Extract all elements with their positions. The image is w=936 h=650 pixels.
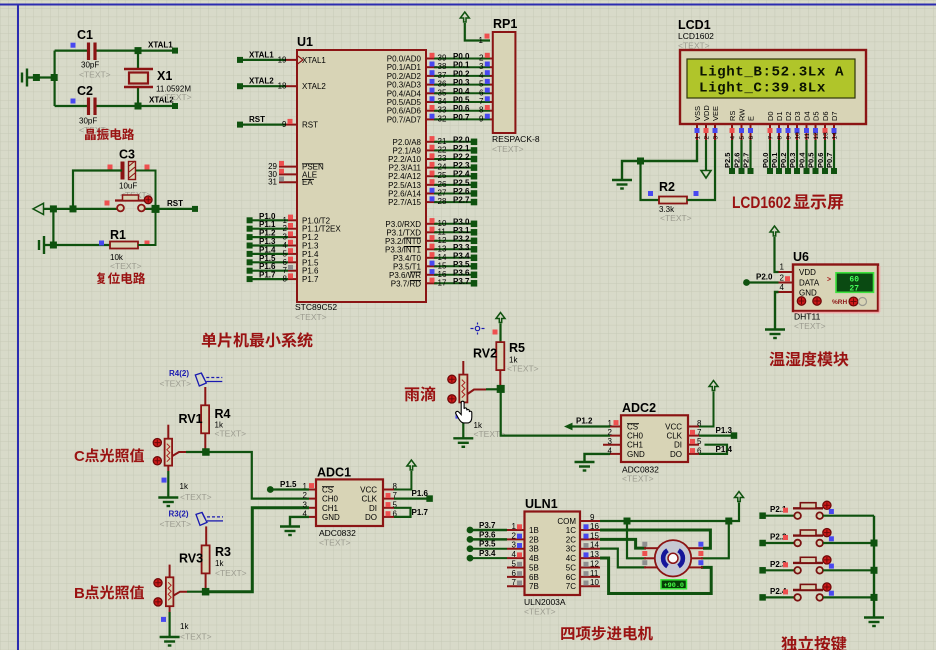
wire COM to motor left-middle [627,521,646,558]
pin 7 (CLK) of ADC2 [688,435,699,437]
svg-text:GND: GND [627,450,645,459]
svg-text:P1.7: P1.7 [259,271,276,280]
svg-text:10: 10 [795,132,802,140]
svg-text:9: 9 [479,114,484,123]
svg-text:36: 36 [438,80,447,89]
pin P3.5 of U1 [426,265,437,267]
svg-text:1: 1 [780,263,785,272]
svg-text:P0.3: P0.3 [788,153,797,168]
svg-text:XTAL2: XTAL2 [302,82,326,91]
RV1 wiper wire [172,452,186,456]
svg-text:R5: R5 [509,341,525,355]
svg-text:3: 3 [713,136,720,140]
pin 2 (CH0) of ADC2 [610,435,621,437]
wire crystal bottom [137,87,139,106]
svg-text:P0.2: P0.2 [453,69,470,78]
net P1.3 (ADC2 CLK) [699,435,734,437]
wire R2 to VEE [687,140,715,200]
wire RV2 to ground [462,402,464,409]
pin P1.0 of U1 [288,219,297,221]
svg-text:39: 39 [438,54,447,63]
svg-text:XTAL1: XTAL1 [148,41,173,50]
wire/net P0.0 (LCD data) [769,140,771,171]
svg-text:13: 13 [590,550,599,559]
pin 8 (VCC) of ADC1 [383,489,394,491]
pin P2.2 of U1 [426,158,437,160]
svg-text:VCC: VCC [665,423,682,432]
capacitor C2 [89,98,96,116]
push button K4 [759,594,766,601]
reset push button [117,205,124,212]
pin 7 (CLK) of ADC1 [383,498,394,500]
pin P3.4 of U1 [426,257,437,259]
svg-text:Light_C:39.8Lx: Light_C:39.8Lx [699,81,826,97]
wire button K4 to common [823,596,874,598]
svg-text:<TEXT>: <TEXT> [215,568,247,578]
svg-text:DO: DO [670,450,682,459]
ground (crystal rail) [22,69,27,87]
svg-text:RST: RST [249,115,265,124]
wire RV1 to ground [167,466,169,471]
pin 15 (2C) of ULN1 [580,538,600,540]
pin P0.2 of U1 / wire to RP1 [426,75,437,77]
svg-text:P0.5: P0.5 [453,96,470,105]
pin 4 of RP1 [490,75,493,77]
svg-text:8: 8 [777,136,784,140]
potentiometer RV1 [167,425,169,439]
pin P2.7 of U1 [426,201,437,203]
svg-text:8: 8 [283,275,288,284]
pin P3.1 of U1 [426,231,437,233]
pin P3.0 of U1 [426,223,437,225]
svg-text:GND: GND [322,513,340,522]
svg-text:DO: DO [365,513,377,522]
LCD screen [687,59,855,98]
svg-text:P3.7: P3.7 [479,521,496,530]
label temperature-humidity module (Chinese) [769,352,784,367]
wire/net P0.4 (LCD data) [805,140,807,171]
svg-text:1C: 1C [566,526,576,535]
pin P2.4 of U1 [426,175,437,177]
svg-text:4B: 4B [529,554,539,563]
svg-text:4C: 4C [566,554,576,563]
svg-text:ADC2: ADC2 [622,401,656,415]
power arrow (motor COM) [735,492,744,502]
DHT11 readout display [836,273,874,293]
svg-text:ULN2003A: ULN2003A [524,597,566,607]
darlington array ULN1 (ULN2003A) [525,512,581,596]
pin 2 (CH0) of ADC1 [309,498,316,500]
node P2.0 / wire to DATA [743,279,750,286]
svg-text:D5: D5 [812,111,821,121]
pin P1.6 of U1 [288,270,297,272]
pin 8 of RP1 [490,110,493,112]
svg-text:ADC0832: ADC0832 [319,528,356,538]
wire buttons common rail [873,516,875,617]
ground (U6) [765,330,785,339]
svg-text:7: 7 [768,136,775,140]
ADC U2 body (ADC2 ADC0832) [621,415,688,462]
pin 2 of U6 (DATA) [779,282,794,284]
svg-text:RST: RST [167,199,183,208]
svg-text:11: 11 [804,132,811,139]
pin P1.2 of U1 [288,236,297,238]
wire COM to motor right-middle [701,521,729,558]
wire C2 to XTAL2 [55,105,87,107]
svg-text:15: 15 [590,531,599,540]
svg-text:38: 38 [438,62,447,71]
pin 4 (GND) of ADC1 [309,516,316,518]
svg-text:2C: 2C [566,535,576,544]
svg-text:2B: 2B [529,535,539,544]
svg-text:5: 5 [479,80,484,89]
svg-text:RST: RST [302,121,318,130]
resistor R3 1k (LDR) [205,526,207,545]
pin 7 of RP1 [490,101,493,103]
svg-text:P1.2: P1.2 [576,417,593,426]
net P1.7 (ADC1 DI/DO tie) [394,508,411,517]
svg-text:D7: D7 [830,111,839,121]
svg-text:E: E [747,116,756,121]
svg-text:P0.7/AD7: P0.7/AD7 [387,115,422,124]
svg-text:5C: 5C [566,563,576,572]
ground (buttons) [864,618,884,627]
wire 1C to motor right-top [600,530,710,548]
wire power to ADC1 VCC [394,471,411,490]
svg-text:P0.1: P0.1 [453,61,470,70]
wire C3 left branch [73,171,122,209]
svg-text:P0.7: P0.7 [825,153,834,168]
svg-text:P2.5: P2.5 [723,153,732,168]
node P3.5 / wire to ULN1 3B [467,545,474,552]
svg-text:11: 11 [590,569,599,578]
U6 adjust knobs and %RH label [797,297,805,305]
svg-text:<TEXT>: <TEXT> [319,538,351,548]
svg-text:P0.6/AD6: P0.6/AD6 [387,107,422,116]
svg-text:P1.6: P1.6 [412,489,429,498]
pin EA of U1 [279,181,297,183]
power arrow (RP1) [460,12,469,22]
svg-text:14: 14 [590,541,599,550]
node P3.6 / wire to ULN1 2B [467,536,474,543]
svg-text:DI: DI [369,504,377,513]
svg-text:ULN1: ULN1 [525,497,558,511]
svg-text:VSS: VSS [693,106,702,121]
pin P3.2 of U1 [426,240,437,242]
svg-text:9: 9 [282,120,287,129]
ground (ADC1) [280,527,300,536]
input terminal (left arrow) [33,203,44,214]
svg-text:D3: D3 [793,111,802,121]
svg-text:D6: D6 [821,111,830,121]
svg-text:P3.4: P3.4 [479,549,496,558]
wire button K3 to common [823,569,874,571]
svg-text:RS: RS [728,111,737,121]
svg-text:31: 31 [268,178,277,187]
mouse cursor [456,401,472,423]
svg-text:3: 3 [479,62,484,71]
pin 5 (5B) of ULN1 [507,566,525,568]
svg-text:9: 9 [786,136,793,140]
svg-text:P0.0/AD0: P0.0/AD0 [387,55,422,64]
wire/net P2.7 (LCD pin 6) [749,140,751,171]
svg-text:8: 8 [479,106,484,115]
svg-text:<TEXT>: <TEXT> [160,92,192,102]
svg-text:<TEXT>: <TEXT> [79,70,111,80]
wire VDD to power-down arrow [705,140,707,171]
pin 2 of RP1 [490,58,493,60]
svg-text:12: 12 [590,559,599,568]
svg-text:XTAL2: XTAL2 [249,77,274,86]
LDR torch icon (R3) [196,512,223,525]
svg-text:2: 2 [303,491,308,500]
svg-text:>: > [827,277,831,284]
svg-text:<TEXT>: <TEXT> [622,474,654,484]
capacitor C1 [89,43,96,61]
ground (RV2) [453,438,473,447]
wire/net P0.3 (LCD data) [796,140,798,171]
svg-text:D1: D1 [775,111,784,121]
ground (RV3) [160,637,180,646]
svg-text:13: 13 [823,132,830,140]
svg-text:P0.0: P0.0 [761,153,770,168]
wire RV3 node to ADC1 CH1 [206,508,309,592]
svg-text:P0.3: P0.3 [453,78,470,87]
svg-text:2: 2 [780,274,785,283]
LDR torch icon (R4) [195,373,222,386]
ground (ADC2) [575,462,595,471]
temperature sensor U6 DHT11 [793,265,878,312]
svg-text:CLK: CLK [361,495,377,504]
svg-text:P1.7: P1.7 [412,508,429,517]
wire ADC2 GND to ground [585,454,611,462]
wire RV1 node to ADC1 CH0 [206,452,309,499]
pin 6 (6B) of ULN1 [507,576,525,578]
sheet border [0,4,936,6]
svg-text:P0.2/AD2: P0.2/AD2 [387,72,422,81]
svg-text:P0.1: P0.1 [770,153,779,168]
label raindrop (Chinese) [405,387,420,401]
label reset-circuit (Chinese) [97,272,106,284]
resistor R1 10k [110,242,138,249]
svg-text:P0.4: P0.4 [798,152,807,168]
svg-text:32: 32 [438,114,447,123]
svg-text:LCD1602: LCD1602 [678,31,714,41]
node P1.5 / wire to ADC1 CS [267,486,274,493]
label MCU minimal system (Chinese) [202,332,217,347]
net P1.6 (ADC1 CLK) [394,498,430,500]
power arrow (R5) [496,313,505,323]
svg-text:GND: GND [799,289,817,298]
pin P0.3 of U1 / wire to RP1 [426,84,437,86]
wire crystal top [137,51,139,69]
svg-text:RV1: RV1 [179,412,203,426]
svg-text:10: 10 [590,578,599,587]
wire 2C to motor left-top [600,539,646,548]
push button K2 [759,540,766,547]
wire R5 to junction [499,370,501,385]
svg-text:5: 5 [697,437,702,446]
svg-text:C2: C2 [77,84,93,98]
svg-text:<TEXT>: <TEXT> [507,364,539,374]
svg-text:R4(2): R4(2) [169,369,189,378]
svg-text:ADC1: ADC1 [317,466,351,480]
power arrow (U6) [770,226,779,236]
wire power to ADC2 VCC [699,392,714,427]
pin 11 (6C) of ULN1 [580,576,600,578]
svg-text:P2.0: P2.0 [756,273,773,282]
svg-text:CH1: CH1 [627,441,644,450]
pin 6 (DO) of ADC1 [383,516,394,518]
pin 3 (3B) of ULN1 [507,548,525,550]
svg-text:LCD1: LCD1 [678,18,711,32]
wire/net P0.7 (LCD data) [833,140,835,171]
pin P2.0 of U1 [426,141,437,143]
potentiometer RV2 [462,361,464,375]
pin P0.0 of U1 / wire to RP1 [426,58,437,60]
wire RST rail [44,208,118,210]
pin P3.6 of U1 [426,274,437,276]
svg-text:<TEXT>: <TEXT> [180,492,212,502]
svg-text:<TEXT>: <TEXT> [110,261,142,271]
svg-text:7: 7 [512,578,517,587]
pin 6 (DO) of ADC2 [688,453,699,455]
svg-text:5B: 5B [529,563,539,572]
svg-text:P0.5: P0.5 [807,153,816,168]
pin 16 (1C) of ULN1 [580,529,600,531]
svg-text:RW: RW [738,108,747,121]
svg-text:+90.0: +90.0 [664,582,684,590]
svg-text:1: 1 [512,522,517,531]
svg-text:3B: 3B [529,545,539,554]
svg-text:<TEXT>: <TEXT> [160,379,192,389]
svg-text:D2: D2 [784,111,793,121]
svg-text:RESPACK-8: RESPACK-8 [492,134,540,144]
svg-text:<TEXT>: <TEXT> [215,429,247,439]
pin 1 (1B) of ULN1 [507,529,525,531]
svg-text:1: 1 [479,36,484,45]
svg-text:P0.2: P0.2 [779,153,788,168]
pin 9 (COM) of ULN1 [580,520,600,522]
push button K3 [759,567,766,574]
svg-text:1: 1 [695,136,702,140]
pin XTAL1 of U1 [286,59,297,61]
node P3.4 / wire to ULN1 4B [467,555,474,562]
svg-text:<TEXT>: <TEXT> [492,144,524,154]
pin 1 (CS) of ADC2 [610,426,621,428]
svg-text:3: 3 [512,541,517,550]
pin P0.1 of U1 / wire to RP1 [426,66,437,68]
ground (R1) [39,236,44,254]
pin 3 (CH1) of ADC2 [603,444,621,446]
net P1.2 terminal (ADC2 CS) [564,423,573,431]
resistor R5 1k [496,342,504,370]
pin P2.1 of U1 [426,149,437,151]
pin P3.7 of U1 [426,282,437,284]
pin P0.6 of U1 / wire to RP1 [426,110,437,112]
RV2 wiper wire [468,390,487,395]
svg-text:4: 4 [512,550,517,559]
pin P0.7 of U1 / wire to RP1 [426,118,437,120]
resistor R2 3.3k [659,197,687,204]
svg-text:14: 14 [832,132,839,140]
wire 4C to motor right-bottom (bottom loop) [600,558,711,594]
svg-text:P1.4: P1.4 [716,445,733,454]
pin 4 (GND) of ADC2 [610,453,621,455]
wire/net P0.6 (LCD data) [824,140,826,171]
pin P0.5 of U1 / wire to RP1 [426,101,437,103]
net P1.4 (ADC2 DI/DO tie) [699,445,727,454]
pin P1.1 of U1 [288,228,297,230]
svg-text:4: 4 [479,71,484,80]
svg-text:1k: 1k [180,622,189,631]
wire left rail [53,51,55,106]
wire R4 to junction [204,433,206,449]
svg-text:1k: 1k [215,559,224,568]
power arrow (ADC2) [709,381,718,391]
svg-text:R1: R1 [110,228,126,242]
svg-text:28: 28 [438,197,447,206]
power terminal down (LCD VDD) [701,171,711,179]
svg-text:P1.3: P1.3 [716,426,733,435]
pin ALE of U1 [279,173,297,175]
svg-text:4: 4 [730,136,737,140]
svg-text:P0.0: P0.0 [453,52,470,61]
svg-text:34: 34 [438,97,447,106]
ground (LCD) [612,180,632,189]
svg-text:1B: 1B [529,526,539,535]
svg-text:2: 2 [479,54,484,63]
svg-text:7: 7 [479,97,484,106]
node P3.7 / wire to ULN1 1B [467,527,474,534]
junction RST node [152,205,160,213]
svg-text:R4: R4 [215,407,231,421]
wire rail to R1 [52,209,54,245]
pin XTAL2 of U1 [286,85,297,87]
svg-text:Light_B:52.3Lx A: Light_B:52.3Lx A [699,65,844,81]
svg-text:7C: 7C [566,582,576,591]
pin 5 (DI) of ADC1 [383,507,394,509]
svg-text:33: 33 [438,106,447,115]
svg-text:VCC: VCC [360,486,377,495]
pin RST of U1 [286,124,297,126]
svg-text:C3: C3 [119,148,135,162]
pin 14 (3C) of ULN1 [580,548,600,550]
svg-text:9: 9 [590,513,595,522]
svg-text:VDD: VDD [702,105,711,121]
pin 8 (VCC) of ADC2 [688,426,699,428]
pin P3.3 of U1 [426,248,437,250]
wire C3 right branch [136,171,156,209]
svg-text:P3.6: P3.6 [479,530,496,539]
crystal X1 [124,69,153,87]
svg-text:B: B [74,585,85,602]
svg-text:STC89C52: STC89C52 [295,302,337,312]
svg-text:XTAL1: XTAL1 [249,50,274,59]
wire/net P0.5 (LCD data) [814,140,816,171]
svg-text:6B: 6B [529,573,539,582]
wire button K1 to common [823,515,874,517]
svg-text:P0.4: P0.4 [453,87,470,96]
pin 7 (7B) of ULN1 [507,585,525,587]
ground (RV1) [158,498,178,507]
pin 6 of RP1 [490,92,493,94]
pin 13 (4C) of ULN1 [580,557,600,559]
wire power to R5 [499,324,501,343]
wire/net P0.2 (LCD data) [787,140,789,171]
wire RV3 to ground [169,606,171,612]
svg-text:P0.6: P0.6 [816,153,825,168]
